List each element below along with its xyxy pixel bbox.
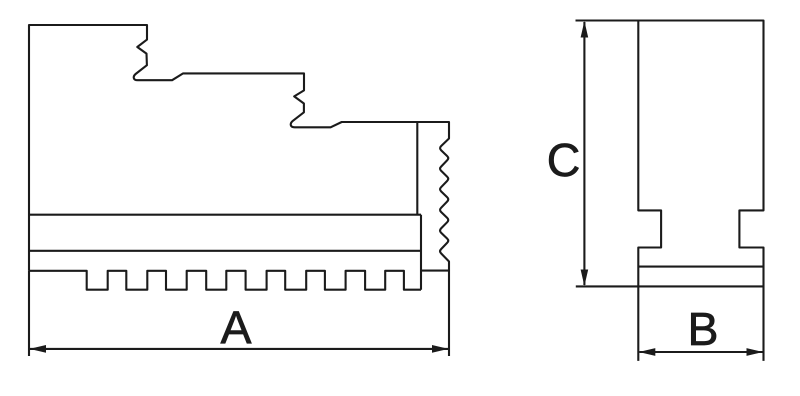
dimension A left arrowhead (30, 345, 47, 353)
dimension C top arrowhead (581, 21, 589, 38)
dimension A left extension line (28, 271, 30, 356)
front view outline (576, 21, 764, 287)
side view guide band top line (29, 214, 421, 216)
svg-text:A: A (220, 301, 251, 353)
dimension B right extension line (762, 286, 764, 361)
dimension C bottom arrowhead (581, 270, 589, 287)
dimension A right extension line (448, 271, 450, 356)
dimension B left extension line (637, 286, 639, 361)
dimension A line (30, 348, 448, 350)
dimension B line (639, 351, 762, 353)
side view outer profile (29, 25, 449, 271)
svg-text:C: C (547, 134, 581, 186)
dimension B right arrowhead (747, 348, 764, 356)
side view inner vertical edge (416, 122, 418, 215)
dimension B left arrowhead (639, 348, 656, 356)
dimension A right arrowhead (432, 345, 449, 353)
side view bottom serration teeth (29, 271, 421, 290)
side view band right edge vertical (420, 215, 422, 290)
dimension C line (583, 22, 585, 285)
side view guide band bottom line (29, 250, 421, 252)
front view inner horizontal line (638, 266, 763, 268)
svg-text:B: B (687, 303, 718, 355)
